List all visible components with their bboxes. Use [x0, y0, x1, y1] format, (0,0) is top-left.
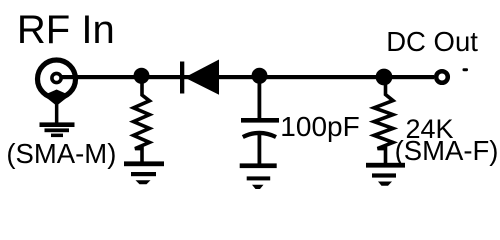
connector J1 SMA-M outer shell — [38, 60, 76, 98]
resistor R1 body — [134, 80, 150, 163]
resistor R2 body 24K — [374, 80, 393, 164]
node B junction dot (C1 top) — [252, 68, 268, 84]
label (SMA-F) — [395, 135, 499, 167]
ground (R2) — [366, 163, 405, 186]
wire main horizontal bus — [62, 75, 434, 79]
label 24K value of R2 — [406, 114, 454, 145]
label DC Out — [386, 26, 478, 58]
connector J1 SMA-M center pin — [52, 73, 61, 82]
node C junction dot (R2 top / DC out) — [376, 69, 393, 86]
wire C1 bottom lead — [258, 134, 262, 164]
tiny dash mark right of DC Out — [463, 68, 469, 71]
diode D1 cathode bar — [180, 62, 184, 94]
diode D1 anode triangle — [185, 60, 220, 95]
ground (C1) — [240, 163, 277, 189]
capacitor C1 curved bottom plate — [243, 133, 276, 137]
node A junction dot (R1 top) — [134, 68, 150, 84]
ground (SMA-M shell) — [40, 122, 75, 137]
label (SMA-M) — [6, 138, 116, 170]
terminal DC Out ring — [436, 71, 448, 83]
label 100pF value of C1 — [280, 111, 359, 143]
wire SMA shell to ground — [55, 103, 59, 123]
ground (R1) — [124, 161, 164, 184]
wire C1 top lead — [258, 80, 262, 119]
label RF In — [17, 8, 115, 53]
capacitor C1 top plate — [241, 118, 279, 123]
connector J1 shell-to-ground wedge — [43, 90, 69, 106]
